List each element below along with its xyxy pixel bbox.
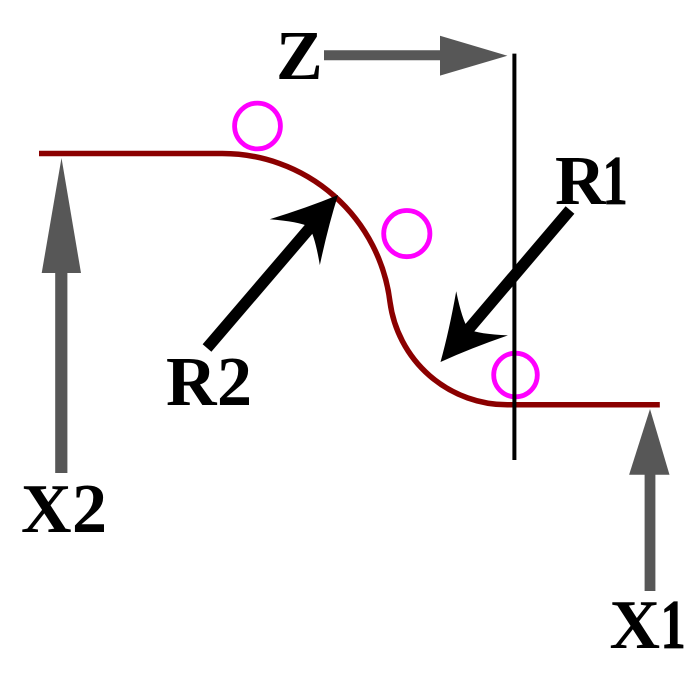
X2 arrow head (gray) [42, 158, 81, 273]
svg-text:Z: Z [276, 18, 323, 95]
X1 arrow head (gray) [629, 409, 669, 475]
R1 pointer head (black barbed) [415, 291, 508, 384]
svg-text:R: R [555, 143, 607, 220]
datum vertical line Z axis [512, 54, 516, 460]
svg-text:1: 1 [661, 587, 686, 664]
svg-text:2: 2 [217, 344, 252, 421]
Z arrow head (gray) [440, 36, 507, 76]
Z arrow shaft (gray) [324, 50, 440, 60]
tool-nose circle middle (magenta) [384, 211, 430, 257]
svg-text:X: X [610, 587, 661, 664]
R2 pointer shaft (black) [207, 227, 311, 348]
X2 arrow shaft (gray) [55, 272, 67, 473]
svg-text:X: X [21, 471, 72, 548]
tool-nose circle top (magenta) [235, 103, 281, 149]
R1 pointer shaft (black) [468, 210, 570, 330]
X1 arrow shaft (gray) [645, 474, 656, 592]
tool-nose circle bottom (magenta) [494, 353, 538, 397]
workpiece profile (dark red S-contour) [39, 153, 660, 404]
svg-text:1: 1 [603, 143, 628, 220]
svg-text:R: R [166, 344, 218, 421]
svg-text:2: 2 [72, 471, 107, 548]
R2 pointer head (black barbed) [270, 172, 363, 265]
